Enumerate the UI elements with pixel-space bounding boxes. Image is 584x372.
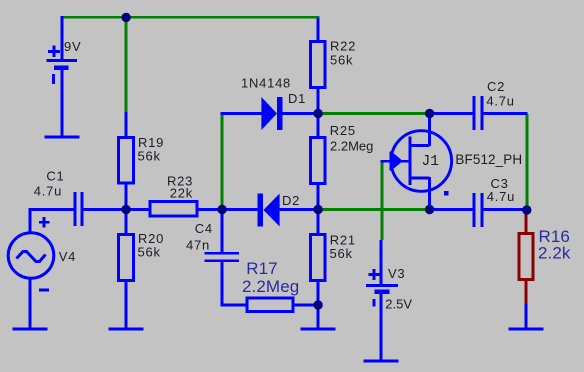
wire J1 source horizontal — [411, 177, 430, 180]
wire D1 cathode lead — [283, 112, 319, 115]
svg-text:56k: 56k — [330, 246, 353, 261]
wire J1 drain horizontal — [411, 144, 430, 147]
wire R21 bottom lead — [317, 282, 320, 305]
node junction drain D — [425, 109, 434, 118]
svg-text:C2: C2 — [487, 79, 505, 94]
resistor R16 highlighted — [519, 233, 533, 279]
node junction IN — [121, 205, 130, 214]
diode D2 — [257, 194, 279, 227]
svg-text:D2: D2 — [282, 193, 300, 208]
wire R20 bottom lead — [125, 282, 128, 328]
wire J1 source to node S — [428, 177, 431, 210]
resistor R21 — [310, 234, 325, 280]
wire node A to D2 cathode — [222, 208, 258, 211]
wire C4 corner to R17 — [221, 304, 247, 307]
wire R22 top lead — [317, 18, 320, 41]
node junction B R25/R21 — [313, 205, 322, 214]
wire V3 bottom lead — [380, 294, 383, 360]
wire R16 to ground blue — [525, 304, 528, 328]
svg-text:56k: 56k — [330, 53, 353, 68]
svg-text:4.7u: 4.7u — [486, 94, 514, 109]
svg-text:V3: V3 — [388, 266, 405, 281]
capacitor C1 — [74, 192, 84, 226]
wire C3 to node OUT — [484, 208, 528, 211]
wire battery V? top lead — [61, 16, 64, 60]
node junction A C4 — [217, 205, 226, 214]
svg-text:2.2Meg: 2.2Meg — [330, 139, 373, 154]
wire D1 anode lead — [221, 112, 262, 115]
svg-text:J1: J1 — [422, 154, 439, 170]
wire R16 top lead dark red — [525, 210, 528, 233]
svg-text:1N4148: 1N4148 — [241, 76, 291, 91]
wire J1 drain to node D — [428, 113, 431, 146]
wire R16 bottom lead dark red — [525, 281, 528, 305]
ground V3 — [364, 360, 399, 363]
wire node C to ground — [317, 305, 320, 328]
capacitor C3 — [472, 193, 483, 227]
wire source row green — [318, 208, 430, 211]
wire R22 bottom lead — [317, 89, 320, 113]
svg-text:BF512_PH: BF512_PH — [455, 152, 522, 167]
svg-text:V4: V4 — [59, 249, 76, 264]
wire C4 top lead — [221, 210, 224, 252]
svg-text:9V: 9V — [64, 39, 81, 54]
svg-text:56k: 56k — [138, 149, 161, 164]
wire C2 to output drop — [484, 112, 528, 115]
node junction D1/R22/R25 — [313, 109, 322, 118]
battery 9V source — [47, 45, 78, 84]
resistor R20 — [118, 234, 133, 280]
svg-text:2.2k: 2.2k — [538, 244, 571, 263]
wire J1 gate lead — [381, 160, 410, 163]
node junction C — [313, 300, 322, 309]
wire V4 bottom lead — [29, 279, 32, 329]
wire D1 anode drop green — [221, 114, 224, 210]
wire C4 bottom lead — [221, 262, 224, 305]
wire R25 bottom lead — [317, 185, 320, 209]
wire drain row green — [318, 112, 430, 115]
ground battery V? — [45, 136, 80, 139]
svg-text:2.2Meg: 2.2Meg — [242, 277, 299, 296]
resistor R19 — [118, 137, 133, 183]
ground R20 — [109, 328, 144, 331]
resistor R25 — [310, 137, 325, 183]
transistor J1 — [390, 131, 452, 196]
svg-text:C4: C4 — [195, 221, 213, 236]
wire node IN to R23 — [126, 208, 150, 211]
svg-text:R17: R17 — [246, 259, 278, 278]
svg-text:C1: C1 — [46, 169, 64, 184]
diode D1 — [261, 97, 282, 130]
svg-text:D1: D1 — [288, 91, 306, 106]
node junction source S — [425, 205, 434, 214]
wire R21 top lead — [317, 210, 320, 234]
wire V4 to C1 — [29, 208, 75, 211]
wire battery V? bottom lead — [61, 70, 64, 137]
battery V3 — [366, 269, 398, 307]
node junction OUT — [522, 205, 531, 214]
wire output drop green — [526, 114, 529, 210]
wire gate drop green — [381, 161, 384, 240]
wire R25 top lead — [317, 114, 320, 137]
svg-text:22k: 22k — [170, 186, 193, 201]
svg-text:4.7u: 4.7u — [487, 189, 515, 204]
wire top rail net VCC green — [61, 16, 320, 19]
wire C1 to node IN — [83, 208, 126, 211]
ground V4 — [13, 328, 48, 331]
wire R19 drop green — [125, 16, 128, 112]
svg-text:R25: R25 — [330, 123, 356, 138]
wire node S to C3 — [431, 208, 474, 211]
svg-text:56k: 56k — [138, 245, 161, 260]
svg-text:4.7u: 4.7u — [34, 184, 62, 199]
svg-text:2.5V: 2.5V — [385, 297, 412, 312]
resistor R22 — [310, 41, 325, 87]
wire V4 top lead — [29, 208, 32, 233]
ground R16 — [509, 328, 544, 331]
wire R23 to node A — [198, 208, 223, 211]
svg-text:R22: R22 — [330, 39, 356, 54]
svg-text:47n: 47n — [186, 238, 210, 253]
wire R17 to node C — [294, 304, 319, 307]
wire V3 top lead — [380, 240, 383, 285]
source V4 — [8, 217, 54, 292]
resistor R23 — [150, 201, 197, 216]
capacitor C2 — [472, 96, 483, 130]
wire node D to C2 — [431, 112, 474, 115]
ground node C — [301, 328, 336, 331]
wire D2 anode to node B — [280, 208, 319, 211]
wire R20 top lead — [125, 210, 128, 234]
resistor R17 — [247, 298, 293, 312]
wire R19 top lead — [125, 112, 128, 137]
wire R19 bottom lead — [125, 184, 128, 209]
node junction VCC/R19 — [121, 13, 130, 22]
capacitor C4 — [205, 252, 240, 262]
